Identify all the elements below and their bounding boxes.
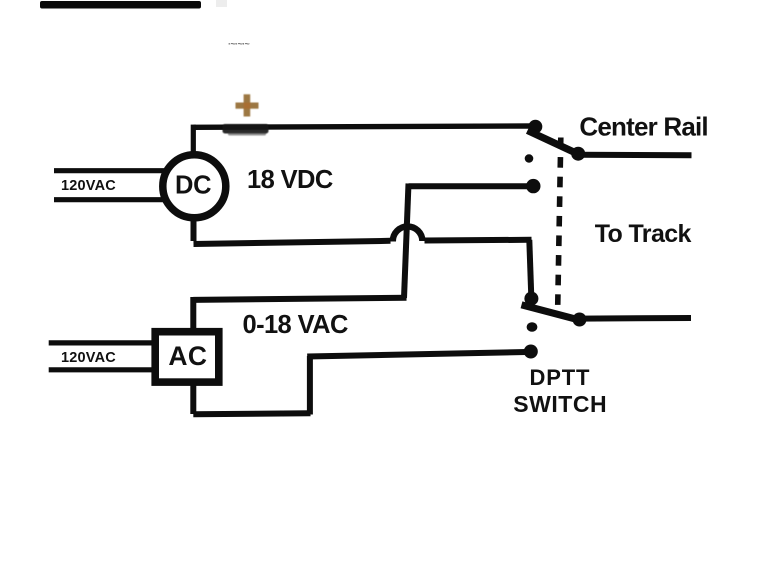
AC transformer box [155,332,219,382]
wire: 120VAC lower lead to AC [49,367,155,372]
wire: AC bottom stub [190,382,196,414]
DC transformer circle [163,155,226,218]
svg-text:120VAC: 120VAC [61,178,116,194]
wire: down to lower pole dot [529,240,531,297]
wire: AC output to bottom switch throw [307,352,526,357]
switch: lower pole dot [524,292,538,306]
wire: AC top output horizontal [193,298,406,300]
wire: AC tap horizontal to mid switch pole [409,183,531,189]
svg-text:0-18 VAC: 0-18 VAC [243,311,348,339]
wire: DC bottom stub [191,215,197,241]
wire: DC output run with hop over vertical, to lower switch pole [194,241,391,244]
small gray nub after bar [216,0,227,7]
wire: 120VAC upper lead to AC [49,340,155,345]
svg-text:18 VDC: 18 VDC [247,166,333,194]
wire: AC top stub [190,297,196,331]
wire: 120VAC upper lead to DC [54,168,164,173]
switch: lower small contact dot [527,322,538,331]
svg-text:To Track: To Track [595,220,692,248]
svg-text:DPTT: DPTT [530,365,591,390]
switch: mid pole dot [526,179,540,193]
switch: upper throw dot [571,147,585,161]
switch: bottom contact dot [524,345,538,359]
svg-text:SWITCH: SWITCH [513,391,607,417]
switch: upper arm [528,131,576,153]
svg-text:·~·~·~: ·~·~·~ [228,39,250,49]
wire: vertical up at x=310 [307,356,313,415]
svg-text:120VAC: 120VAC [61,350,116,366]
svg-text:DC: DC [175,172,211,200]
wire: top run from DC corner to switch pole 1 [194,126,535,127]
wire: 120VAC lower lead to DC [54,197,164,202]
wire: vertical riser (slight lean) [404,184,409,299]
switch: lower throw dot [573,313,587,327]
switch: lower arm [522,305,579,320]
wire: outside rail output [580,315,691,322]
plus sign polarity marker [236,94,259,116]
switch: upper pole dot [529,120,543,134]
switch: mechanical link dashed [558,138,561,314]
switch: upper small contact dot [525,154,534,162]
wire: corner down to DC transformer top [191,125,196,155]
watermark smudge A [228,39,250,49]
wire: bottom run right [193,413,310,414]
watermark smudge on wire [223,124,269,136]
svg-text:AC: AC [168,341,207,371]
wire: center rail output [578,152,692,159]
redacted top bar [40,1,201,9]
svg-text:Center Rail: Center Rail [579,111,707,141]
